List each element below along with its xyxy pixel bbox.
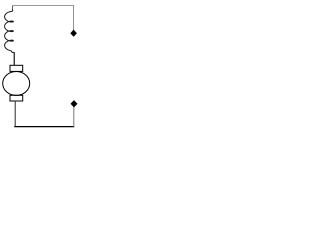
node B — [71, 101, 77, 107]
wire — [13, 52, 15, 65]
inductor L1 — [5, 10, 14, 53]
wire — [12, 5, 14, 10]
wire — [73, 5, 75, 30]
wire — [14, 101, 16, 127]
motor M1 — [3, 65, 30, 101]
node A — [71, 30, 77, 36]
wire — [14, 126, 74, 128]
wire — [12, 5, 74, 7]
wire — [73, 107, 75, 128]
